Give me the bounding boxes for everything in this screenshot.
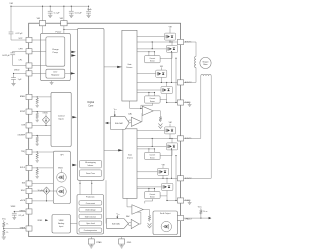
- wire current sense A2 to comparator: [141, 103, 153, 108]
- ground stub ENBL resistor: [36, 105, 39, 107]
- ground below GND pin: [120, 246, 124, 248]
- svg-text:Smart Tune: Smart Tune: [86, 172, 95, 175]
- wire current sense to source node A2: [160, 98, 167, 100]
- wire SDI to SPI block: [32, 183, 53, 185]
- wire DIR to Control Inputs: [32, 124, 51, 126]
- svg-text:SCLK: SCLK: [20, 167, 26, 169]
- capacitor C3 bulk VM: [88, 6, 90, 11]
- bus arrow Power to Digital Core 1: [71, 51, 76, 53]
- wire gate drivers B to comparator B input: [127, 198, 132, 207]
- svg-text:nSLEEP: nSLEEP: [17, 135, 25, 137]
- arrow to ground sense A: [158, 123, 162, 128]
- wire output to low-side B2: [166, 178, 168, 183]
- resistor pulldown TRQ: [37, 151, 38, 152]
- pin PGND A: [177, 100, 183, 105]
- wire low-side source B1: [171, 150, 173, 156]
- wire VM2 branch to Digital Core: [64, 28, 78, 30]
- transistor high-side B2: [158, 168, 169, 175]
- pin SDO: [26, 188, 32, 193]
- wire VCP into charge pump: [32, 39, 46, 41]
- svg-text:Input: Input: [59, 225, 64, 228]
- current source 10uA DIR pullup: [45, 114, 47, 116]
- capacitor C6 1uF DVDD: [13, 73, 14, 74]
- wire output to low-side B1: [171, 138, 173, 143]
- protection item Overcurrent: [79, 201, 102, 205]
- ground stub SCLK resistor: [36, 176, 39, 178]
- pin CPH: [26, 49, 32, 54]
- wire Digital Core to Protection 1: [79, 180, 81, 194]
- wire current sense to source node B1: [160, 155, 172, 157]
- svg-text:Control: Control: [58, 115, 65, 118]
- wire output node B2: [137, 177, 177, 179]
- wire TRQ to SPI block: [32, 151, 53, 153]
- pin VM2: [63, 6, 65, 20]
- wire winding A to AOUT2: [184, 68, 196, 83]
- wire nFAULT pullup net: [184, 217, 210, 219]
- block Current Sense A1: [148, 52, 150, 56]
- svg-text:Inputs: Inputs: [58, 118, 63, 121]
- block Smart Tune: [80, 170, 102, 177]
- svg-text:VM: VM: [9, 3, 12, 5]
- bus arrow Power to Digital Core 2: [71, 54, 76, 56]
- wire comparator A output to sense resistor: [153, 111, 160, 116]
- svg-text:Vₐₒ₃: Vₐₒ₃: [116, 213, 120, 215]
- ground stub STEP resistor: [36, 120, 39, 122]
- ground below C1: [48, 15, 52, 17]
- wire low-side source A2: [166, 94, 168, 100]
- block Current Sense B1: [148, 149, 150, 152]
- pin GND: [121, 237, 123, 239]
- wire low-side A to PGND bus vertical: [175, 58, 177, 102]
- wire AOUT1 to winding A: [184, 42, 196, 56]
- svg-text:Undervoltage: Undervoltage: [85, 209, 95, 212]
- wire gate low-side A1: [137, 48, 166, 50]
- wire winding B right to BOUT2: [184, 76, 212, 179]
- wire high-side drain to output B2: [162, 175, 164, 178]
- pin BOUT1: [177, 136, 183, 141]
- wire VM stub B1: [169, 124, 171, 127]
- wire VM1 into Power block: [42, 26, 44, 34]
- svg-text:8-Bit DAC: 8-Bit DAC: [112, 222, 121, 225]
- svg-text:0.22 µF: 0.22 µF: [16, 33, 24, 35]
- pin DIR: [26, 123, 32, 128]
- transistor low-side A1: [166, 45, 177, 52]
- wire VREG: [14, 211, 26, 213]
- protection item Undervoltage: [79, 208, 102, 212]
- pin SDI: [26, 181, 32, 186]
- ground below divider: [2, 237, 6, 239]
- svg-text:10 µA: 10 µA: [38, 189, 44, 192]
- wire output node B1: [137, 137, 177, 139]
- wire VCP: [11, 39, 26, 41]
- capacitor C5 0.022uF flying: [12, 51, 14, 53]
- pin PGND B: [177, 198, 183, 203]
- pin VREF: [26, 226, 32, 231]
- wire SCLK to SPI block: [32, 167, 53, 169]
- arrow to ground sense B: [148, 223, 152, 228]
- transistor high-side A1: [165, 33, 176, 40]
- svg-text:TRQ: TRQ: [21, 151, 26, 153]
- block VREF Analog Input: [52, 215, 70, 234]
- wire high-side drain to output A1: [169, 40, 171, 42]
- resistor pulldown nSLEEP: [37, 135, 38, 136]
- pin AOUT1: [177, 39, 183, 44]
- wire jumper output to sense A1: [151, 42, 153, 49]
- resistor sense B: [148, 214, 151, 221]
- ground at PGND A: [184, 102, 190, 104]
- resistor pulldown STEP: [37, 111, 38, 112]
- block LDO Regulator: [46, 69, 65, 78]
- svg-text:CPL: CPL: [19, 59, 23, 61]
- wire DVDD into LDO: [32, 72, 46, 74]
- comparator A: [142, 106, 153, 115]
- wire SDO to SPI block: [32, 190, 43, 192]
- svg-text:OVDD: OVDD: [42, 113, 48, 115]
- transistor high-side B1: [165, 127, 176, 134]
- svg-text:Gate: Gate: [128, 153, 132, 156]
- resistor pulldown SCLK: [37, 167, 38, 168]
- capacitor C1 0.1uF VM: [49, 6, 51, 11]
- ground below C3: [87, 15, 91, 17]
- ground below PPAD: [89, 246, 93, 248]
- svg-text:R₂: R₂: [7, 232, 9, 234]
- pin BOUT2: [177, 176, 183, 181]
- wire nSLEEP to Control Inputs: [32, 135, 51, 137]
- dac trapezoid 8-bit torque DAC B: [106, 219, 128, 229]
- transistor fault output driver in circle: [161, 221, 171, 231]
- protection item Open Load: [79, 221, 102, 225]
- wire low-side source B2: [166, 191, 168, 196]
- block Current Sense A2: [148, 93, 150, 96]
- pin DVDD: [26, 71, 32, 76]
- block Current Sense B2: [148, 189, 150, 192]
- pin AOUT2: [177, 80, 183, 85]
- svg-text:Motor: Motor: [203, 63, 208, 66]
- bus arrow LDO to Digital Core: [65, 72, 75, 74]
- wire gate low-side B1: [137, 145, 166, 147]
- wire VREF analog input to protection area: [70, 223, 77, 225]
- svg-text:VM: VM: [37, 18, 40, 20]
- wire output node A2: [137, 81, 177, 83]
- pin ENBL: [26, 94, 32, 99]
- wire current sense B2 to comparator B: [145, 199, 153, 204]
- wire CPH into charge pump: [32, 50, 46, 52]
- wire gate low-side A2: [137, 89, 161, 91]
- pin nFAULT: [177, 216, 183, 221]
- svg-text:Sense: Sense: [150, 101, 155, 103]
- svg-text:SDI: SDI: [22, 183, 26, 185]
- wire winding B left to BOUT1: [184, 76, 201, 139]
- svg-text:Rₖₐₘₗₜ: Rₖₐₘₗₜ: [203, 211, 208, 213]
- wire current sense feed A2: [137, 92, 155, 94]
- wire op-amp B output to comparator: [132, 212, 141, 224]
- pin STEP: [26, 109, 32, 114]
- svg-text:Core: Core: [88, 105, 94, 108]
- wire comparator B output to sense resistor: [143, 210, 149, 215]
- pin nSCS: [26, 198, 32, 203]
- ground below Power block: [51, 81, 53, 83]
- svg-text:Pump: Pump: [53, 52, 59, 54]
- pin VREG: [26, 209, 32, 214]
- pin nSLEEP: [26, 133, 32, 138]
- block Microstepping Indexer: [80, 160, 102, 168]
- transistor low-side A2: [161, 86, 172, 93]
- svg-text:0.022 µF: 0.022 µF: [2, 55, 10, 57]
- svg-text:CPH: CPH: [19, 49, 24, 51]
- svg-text:Gate: Gate: [127, 63, 131, 66]
- pin VCP: [26, 37, 32, 42]
- wire high-side drain to output A2: [160, 77, 162, 82]
- capacitor C4 0.22uF VCP: [9, 32, 14, 34]
- wire current sense to source node A1: [160, 57, 172, 59]
- wire CPH: [13, 50, 26, 52]
- wire CPL into charge pump: [32, 65, 46, 67]
- svg-text:Regulator: Regulator: [51, 74, 60, 77]
- svg-text:Sense: Sense: [150, 197, 155, 199]
- wire interconnect vertical A x171.5: [171, 52, 173, 83]
- inductor winding A: [195, 56, 196, 67]
- wire PGND bus B: [166, 196, 168, 201]
- block Fault Output: [153, 211, 177, 235]
- svg-text:Stall Detection: Stall Detection: [85, 215, 96, 218]
- svg-text:STEP: STEP: [20, 111, 26, 113]
- svg-text:Charge: Charge: [52, 49, 59, 51]
- svg-text:Vₐₒ₃: Vₐₒ₃: [114, 109, 118, 111]
- svg-text:0.1 µF: 0.1 µF: [19, 215, 25, 217]
- wire vertical vref feed B: [105, 180, 107, 223]
- resistor pulldown ENBL: [37, 96, 38, 97]
- arrow dac A to digital core: [106, 122, 111, 124]
- wire divider tap to VREF pin: [3, 228, 4, 229]
- bus arrow SPI to Digital Core: [72, 164, 77, 166]
- svg-text:0.1 µF: 0.1 µF: [54, 13, 60, 15]
- ground stub TRQ resistor: [36, 161, 39, 163]
- node VM supply rail: [11, 5, 89, 7]
- pin VM1: [42, 6, 44, 20]
- svg-text:Drivers: Drivers: [127, 156, 133, 159]
- wire output to low-side A1: [171, 42, 173, 45]
- wire ENBL to Control Inputs: [32, 96, 51, 98]
- wire low-side B to PGND bus vertical: [175, 156, 177, 201]
- transistor high-side A2: [156, 70, 167, 77]
- svg-text:Current: Current: [149, 97, 155, 100]
- protection item Stall Detection: [79, 214, 102, 218]
- wire Digital Core to Gate Drivers A: [104, 66, 121, 68]
- transistor nSCS driver in circle: [57, 187, 67, 197]
- wire gate high-side A2: [137, 73, 156, 75]
- svg-text:LDO: LDO: [53, 72, 57, 74]
- wire jumper output to sense B1: [151, 138, 153, 146]
- wire current sense feed A1: [137, 51, 155, 53]
- bus arrow Control Inputs to Digital Core: [72, 116, 77, 118]
- ground below C7: [12, 218, 16, 220]
- wire gate high-side B1: [137, 129, 165, 131]
- wire current sense feed B2: [137, 188, 155, 190]
- wire gate high-side B2: [137, 171, 158, 173]
- ground stub nSLEEP resistor: [36, 144, 39, 146]
- svg-text:PPAD: PPAD: [96, 241, 102, 244]
- block Protection: [77, 195, 104, 235]
- svg-text:Current: Current: [149, 193, 155, 196]
- protection item Overtemperature: [79, 228, 102, 232]
- svg-text:Open Load: Open Load: [86, 223, 95, 225]
- wire op-amp A output to comparator: [141, 113, 144, 122]
- block SPI: [53, 151, 70, 203]
- svg-text:Drivers: Drivers: [126, 66, 132, 69]
- svg-text:Indexer: Indexer: [88, 164, 94, 167]
- svg-text:Fault Output: Fault Output: [160, 212, 171, 215]
- comparator B: [132, 205, 143, 214]
- wire STEP to Control Inputs: [32, 111, 51, 113]
- wire VM stub B2: [162, 166, 164, 168]
- ground below C6: [11, 84, 15, 86]
- wire CPL: [13, 65, 26, 67]
- svg-text:VSDO: VSDO: [58, 168, 64, 170]
- svg-text:Analog: Analog: [58, 222, 64, 225]
- ground at PGND B: [184, 200, 190, 202]
- svg-text:Current: Current: [149, 154, 155, 157]
- inductor winding B: [201, 75, 211, 76]
- pin TRQ: [26, 149, 32, 154]
- svg-text:ENBL: ENBL: [20, 96, 26, 98]
- svg-text:VCC: VCC: [198, 207, 203, 209]
- wire interconnect vertical B x171.5: [171, 149, 173, 178]
- chip outline U1 DRV8434: [29, 23, 181, 236]
- svg-text:VREF: VREF: [59, 220, 65, 222]
- svg-text:Overcurrent: Overcurrent: [86, 202, 96, 205]
- svg-text:Sense: Sense: [150, 61, 155, 63]
- svg-text:Sense: Sense: [150, 157, 155, 159]
- block Digital Core: [78, 28, 105, 180]
- svg-text:DVDD: DVDD: [14, 70, 20, 72]
- wire PGND bus A: [166, 99, 168, 102]
- resistor R1 divider top: [3, 221, 6, 228]
- svg-text:Stepper: Stepper: [203, 60, 209, 63]
- op-amp A: [131, 117, 141, 126]
- wire nSCS to SPI block: [32, 200, 53, 202]
- capacitor C7 0.1uF VREG: [13, 212, 15, 214]
- resistor R2 divider bottom: [3, 229, 6, 236]
- ground below C2: [69, 15, 73, 17]
- svg-text:VREF: VREF: [20, 228, 26, 230]
- transistor low-side B2: [162, 183, 173, 190]
- wire Digital Core to Gate Drivers B: [104, 149, 122, 151]
- svg-text:Bulk: Bulk: [88, 9, 92, 11]
- wire gate low-side B2: [137, 186, 162, 188]
- svg-text:Overtemperature: Overtemperature: [84, 229, 97, 232]
- resistor sense A: [159, 116, 162, 122]
- dac trapezoid 8-bit torque DAC A: [111, 117, 130, 130]
- wire VM stub A1: [169, 28, 171, 33]
- wire SDO into driver: [43, 190, 57, 192]
- wire current sense to source node B2: [160, 195, 167, 197]
- svg-text:SDO: SDO: [21, 190, 26, 192]
- wire output to low-side A2: [166, 82, 168, 86]
- wire DVDD: [14, 72, 27, 74]
- transistor low-side B1: [166, 143, 177, 150]
- svg-text:8-Bit DAC: 8-Bit DAC: [115, 122, 124, 125]
- op-amp B: [131, 219, 139, 228]
- svg-text:VCC: VCC: [2, 219, 7, 221]
- wire high-side drain to output B1: [169, 134, 171, 139]
- motor M1 stepper: [200, 57, 211, 68]
- wire current sense feed B1: [137, 148, 155, 150]
- svg-text:0.01 µF: 0.01 µF: [75, 13, 83, 15]
- wire output node A1: [137, 41, 177, 43]
- wire gate high-side A1: [137, 36, 165, 38]
- svg-text:Current: Current: [149, 57, 155, 60]
- block Control Inputs: [51, 92, 71, 146]
- svg-text:GND: GND: [127, 242, 132, 244]
- wire VM stub A2: [160, 67, 162, 70]
- pin PPAD: [90, 237, 92, 239]
- pin SCLK: [26, 165, 32, 170]
- capacitor C2 0.01uF VM: [70, 6, 72, 11]
- block Charge Pump: [46, 37, 65, 66]
- wire VM2 into Power block: [63, 26, 65, 34]
- wire VCC: [3, 220, 5, 221]
- svg-text:nFAULT: nFAULT: [185, 217, 193, 220]
- pin CPL: [26, 63, 32, 68]
- wire VM rail left drop: [10, 6, 12, 32]
- resistor RFAULT pullup: [200, 207, 202, 210]
- svg-text:nSCS: nSCS: [20, 200, 26, 202]
- svg-text:SPI: SPI: [60, 154, 64, 156]
- svg-text:VM: VM: [60, 18, 63, 20]
- svg-text:Microstepping: Microstepping: [85, 161, 96, 164]
- block Gate Drivers B: [123, 129, 137, 199]
- transistor SDO driver in circle: [61, 170, 63, 173]
- wire Digital Core to Protection 2: [91, 180, 93, 194]
- block Gate Drivers A: [122, 30, 137, 101]
- wire low-side source A1: [171, 52, 173, 58]
- svg-text:DIR: DIR: [22, 125, 26, 127]
- svg-text:Protection: Protection: [86, 196, 95, 199]
- wire gate drivers A to comparator plus input: [130, 101, 143, 109]
